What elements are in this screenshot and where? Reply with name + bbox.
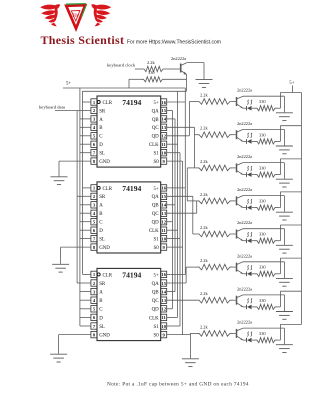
wire D1 to R1b (252, 107, 255, 109)
svg-text:CLK: CLK (149, 143, 159, 148)
wire feed block4 (167, 201, 197, 213)
logo url text (127, 39, 221, 45)
svg-text:GND: GND (99, 160, 110, 165)
ground Q9 (196, 80, 213, 88)
wire rail segment 6 (301, 258, 303, 291)
wire clock to base (165, 68, 180, 70)
svg-text:12: 12 (161, 134, 166, 139)
wire Q5 collector (243, 229, 284, 245)
wire R2a to base (232, 134, 236, 136)
resistor R5b 330 (255, 232, 277, 244)
svg-text:CLR: CLR (103, 273, 113, 278)
svg-text:Note: Put a .1uF cap between 5: Note: Put a .1uF cap between 5+ and GND … (107, 382, 249, 388)
ground Q7 (276, 312, 293, 320)
wire rail segment 1 (301, 93, 303, 126)
wire rail segment 2 (301, 126, 303, 159)
svg-text:Fly: Fly (72, 14, 79, 19)
transistor Q1 2N2222A (237, 88, 253, 109)
svg-text:11: 11 (162, 315, 167, 320)
resistor R6b 330 (255, 265, 277, 277)
resistor R6a 2.2k (197, 258, 232, 270)
wire R8a to base (232, 332, 236, 334)
svg-text:2n2222a: 2n2222a (237, 121, 252, 126)
power label 5+ left (66, 82, 71, 87)
svg-text:2.2k: 2.2k (200, 192, 208, 197)
wire bus QA (167, 111, 173, 309)
svg-text:11: 11 (162, 228, 167, 233)
svg-text:D: D (99, 316, 103, 321)
wire feed block7 (167, 299, 197, 301)
wire D6 to R6b (252, 273, 255, 275)
wire Q1 collector (243, 96, 284, 112)
resistor R4a 2.2k (197, 192, 232, 204)
wire Q4 collector (243, 196, 284, 212)
svg-text:16: 16 (161, 186, 166, 191)
svg-text:2n2222a: 2n2222a (237, 253, 252, 258)
svg-text:330: 330 (259, 298, 266, 303)
wire rail segment 5 (301, 225, 303, 258)
resistor R3a 2.2k (197, 159, 232, 171)
wire R5b to rail (277, 225, 302, 241)
resistor R1b 330 (255, 99, 277, 111)
note text (107, 382, 249, 388)
svg-text:SL: SL (99, 152, 105, 157)
transistor Q6 2N2222A (237, 253, 253, 274)
svg-text:330: 330 (148, 70, 155, 75)
svg-text:QD: QD (152, 135, 160, 140)
svg-text:330: 330 (259, 232, 266, 237)
transistor Q9 2N2222A (171, 56, 187, 75)
resistor R8a 2.2k (197, 324, 232, 336)
logo left wing (40, 4, 60, 26)
wire bus S1 (167, 153, 180, 326)
wire feed block1 (167, 102, 197, 136)
svg-text:2.2k: 2.2k (147, 60, 155, 65)
wire R1b to rail (277, 93, 302, 109)
wire Q9 collector (187, 63, 204, 80)
svg-text:330: 330 (259, 265, 266, 270)
svg-text:5+: 5+ (153, 273, 158, 278)
wire Q7 collector (243, 295, 284, 311)
svg-text:C: C (99, 221, 102, 226)
svg-text:CLR: CLR (103, 187, 113, 192)
transistor Q2 2N2222A (237, 121, 253, 142)
wire 5+ stub right (292, 86, 294, 93)
svg-text:330: 330 (259, 166, 266, 171)
svg-text:S1: S1 (154, 325, 160, 330)
svg-text:5+: 5+ (153, 101, 158, 106)
resistor R3b 330 (255, 166, 277, 178)
svg-text:GND: GND (99, 334, 110, 339)
svg-text:S1: S1 (154, 152, 160, 157)
svg-text:2.2k: 2.2k (200, 225, 208, 230)
power label 5+ right (289, 81, 294, 86)
svg-text:Thesis Scientist: Thesis Scientist (41, 33, 125, 47)
svg-text:A: A (99, 204, 103, 209)
svg-text:2.2k: 2.2k (200, 324, 208, 329)
svg-text:QC: QC (152, 126, 159, 131)
svg-text:2.2k: 2.2k (200, 258, 208, 263)
wire R5a to base (232, 233, 236, 235)
svg-text:S0: S0 (154, 246, 160, 251)
wire R6b to rail (277, 258, 302, 274)
LED D2 (243, 133, 252, 144)
svg-text:13: 13 (161, 125, 166, 130)
svg-text:keyboard clock: keyboard clock (107, 63, 136, 68)
resistor R7a 2.2k (197, 291, 232, 303)
svg-text:S1: S1 (154, 238, 160, 243)
wire U3 gnd (59, 335, 91, 354)
svg-text:keyboard data: keyboard data (39, 105, 65, 110)
wire rail segment 7 (301, 291, 303, 324)
svg-text:2n2222a: 2n2222a (237, 88, 252, 93)
ground Q5 (276, 245, 293, 253)
svg-text:CLK: CLK (149, 229, 159, 234)
wire rail segment 3 (301, 159, 303, 192)
ground U3 (50, 354, 67, 362)
svg-text:10: 10 (161, 324, 166, 329)
svg-text:12: 12 (161, 220, 166, 225)
LED D7 (243, 299, 252, 310)
wire 5+ rail top (63, 87, 185, 89)
resistor R9 2.2k (142, 60, 165, 72)
svg-text:A: A (99, 291, 103, 296)
wire feed block5 (167, 196, 197, 234)
svg-text:74194: 74194 (122, 98, 141, 107)
wire R3b to rail (277, 159, 302, 175)
wire D2 to R2b (252, 140, 255, 142)
wire D3 to R3b (252, 174, 255, 176)
wire Q2 collector (243, 129, 284, 145)
svg-text:QB: QB (152, 204, 160, 209)
svg-text:2n2222a: 2n2222a (237, 220, 252, 225)
svg-text:13: 13 (161, 298, 166, 303)
resistor R2b 330 (255, 132, 277, 144)
transistor Q3 2N2222A (237, 154, 253, 175)
svg-text:D: D (99, 229, 103, 234)
svg-text:16: 16 (161, 100, 166, 105)
transistor Q8 2N2222A (237, 320, 253, 341)
LED D4 (243, 199, 252, 210)
resistor R10 330 pullup (129, 70, 187, 88)
wire R4a to base (232, 200, 236, 202)
wire D7 to R7b (252, 306, 255, 308)
wire U1 gnd (59, 161, 91, 176)
wire keyboard data (55, 110, 91, 112)
wire R8b to rail (277, 324, 302, 340)
wire S0 gnd drop (189, 333, 191, 358)
svg-text:A: A (99, 118, 103, 123)
svg-text:QA: QA (152, 195, 160, 200)
resistor R8b 330 (255, 331, 277, 343)
LED D8 (243, 332, 252, 343)
wire bus CLK (167, 91, 178, 317)
ground Q8 (276, 345, 293, 353)
svg-text:S0: S0 (154, 334, 160, 339)
wire keyboard data bus (77, 111, 91, 284)
svg-text:C: C (99, 135, 102, 140)
ground Q4 (276, 212, 293, 220)
svg-text:2.2k: 2.2k (200, 93, 208, 98)
wire D8 to R8b (252, 339, 255, 341)
svg-text:10: 10 (161, 151, 166, 156)
wire Q8 collector (243, 328, 284, 344)
svg-text:SR: SR (99, 282, 106, 287)
resistor R7b 330 (255, 298, 277, 310)
svg-text:5+: 5+ (153, 187, 158, 192)
ground Q1 (276, 113, 293, 121)
svg-text:2.2k: 2.2k (200, 291, 208, 296)
logo text Thesis Scientist (41, 33, 125, 47)
resistor R4b 330 (255, 199, 277, 211)
svg-text:15: 15 (161, 108, 166, 113)
wire feed block8 (167, 333, 197, 334)
IC U1 74194 (91, 96, 167, 167)
transistor Q5 2N2222A (237, 220, 253, 241)
wire Q9 emitter down (186, 74, 188, 91)
svg-text:16: 16 (161, 272, 166, 277)
svg-text:2n2222a: 2n2222a (237, 154, 252, 159)
wire bus S0 (167, 161, 183, 335)
svg-text:GND: GND (99, 246, 110, 251)
label keyboard data (39, 105, 65, 110)
svg-text:QB: QB (152, 291, 160, 296)
label keyboard clock (107, 63, 136, 68)
wire feed block6 (167, 267, 197, 283)
svg-text:10: 10 (161, 236, 166, 241)
ground S0 (182, 359, 199, 367)
svg-text:74194: 74194 (122, 270, 141, 279)
transistor Q4 2N2222A (237, 187, 253, 208)
svg-text:11: 11 (162, 142, 167, 147)
svg-text:2n2222a: 2n2222a (171, 56, 186, 61)
LED D5 (243, 232, 252, 243)
IC U2 74194 (91, 182, 167, 253)
wire R2b to rail (277, 126, 302, 142)
wire D4 to R4b (252, 207, 255, 209)
wire U2 gnd (61, 247, 91, 264)
svg-text:QC: QC (152, 299, 159, 304)
svg-text:12: 12 (161, 307, 166, 312)
svg-text:15: 15 (161, 281, 166, 286)
wire rail segment 4 (301, 192, 303, 225)
svg-text:C: C (99, 308, 102, 313)
svg-text:2n2222a: 2n2222a (237, 187, 252, 192)
ground U2 (52, 264, 69, 272)
wire bus QB (167, 119, 175, 292)
svg-text:2n2222a: 2n2222a (237, 286, 252, 291)
ground Q6 (276, 278, 293, 286)
wire CLK top horizontal (83, 90, 187, 92)
svg-text:5+: 5+ (66, 82, 71, 87)
svg-text:2n2222a: 2n2222a (237, 320, 252, 325)
svg-text:D: D (99, 143, 103, 148)
svg-text:SR: SR (99, 195, 106, 200)
ground Q3 (276, 179, 293, 187)
svg-text:QA: QA (152, 109, 160, 114)
wire ABCD bus left (80, 88, 91, 326)
logo right wing (91, 4, 111, 26)
svg-text:74194: 74194 (122, 184, 141, 193)
svg-text:2.2k: 2.2k (200, 126, 208, 131)
wire CLR bus left (83, 91, 91, 274)
svg-text:QA: QA (152, 282, 160, 287)
svg-text:S0: S0 (154, 160, 160, 165)
IC U3 74194 (91, 268, 167, 340)
wire R4b to rail (277, 192, 302, 208)
svg-text:CLK: CLK (149, 316, 159, 321)
resistor R1a 2.2k (197, 93, 232, 105)
svg-text:15: 15 (161, 194, 166, 199)
svg-text:For more Https://www.ThesisSci: For more Https://www.ThesisScientist.com (127, 39, 221, 45)
svg-text:QD: QD (152, 308, 160, 313)
wire bus 5V (167, 88, 186, 274)
svg-text:5+: 5+ (289, 81, 294, 86)
svg-text:2.2k: 2.2k (200, 159, 208, 164)
svg-text:QB: QB (152, 118, 160, 123)
ground Q2 (276, 146, 293, 154)
wire clock in (135, 68, 142, 70)
wire R1a to base (232, 101, 236, 103)
svg-text:330: 330 (259, 132, 266, 137)
svg-text:SR: SR (99, 109, 106, 114)
svg-text:QD: QD (152, 221, 160, 226)
transistor Q7 2N2222A (237, 286, 253, 307)
svg-text:QC: QC (152, 212, 159, 217)
wire feed block3 (187, 168, 197, 201)
logo triangle emblem (66, 4, 86, 29)
wire R3a to base (232, 167, 236, 169)
wire Q6 collector (243, 262, 284, 278)
svg-text:14: 14 (161, 289, 166, 294)
LED D6 (243, 265, 252, 276)
wire Q3 collector (243, 163, 284, 179)
resistor R2a 2.2k (197, 126, 232, 138)
svg-text:13: 13 (161, 211, 166, 216)
ground U1 (51, 177, 68, 185)
resistor R5a 2.2k (197, 225, 232, 237)
svg-text:330: 330 (259, 331, 266, 336)
svg-text:14: 14 (161, 203, 166, 208)
svg-text:CLR: CLR (103, 101, 113, 106)
LED D3 (243, 166, 252, 177)
svg-text:330: 330 (259, 99, 266, 104)
LED D1 (243, 100, 252, 111)
wire feed block2 (167, 127, 197, 168)
wire R7a to base (232, 299, 236, 301)
wire R6a to base (232, 266, 236, 268)
wire R7b to rail (277, 291, 302, 307)
wire D5 to R5b (252, 240, 255, 242)
svg-text:14: 14 (161, 117, 166, 122)
svg-text:SL: SL (99, 238, 105, 243)
svg-text:SL: SL (99, 325, 105, 330)
svg-text:330: 330 (259, 199, 266, 204)
